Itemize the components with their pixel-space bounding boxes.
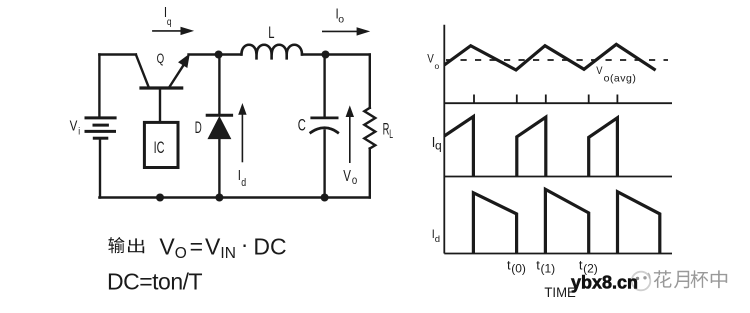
svg-text:D: D (195, 117, 202, 137)
svg-text:V: V (205, 234, 221, 260)
svg-text:·: · (241, 231, 249, 257)
svg-text:V: V (343, 166, 351, 184)
svg-text:L: L (389, 128, 393, 141)
svg-text:o: o (435, 61, 440, 71)
svg-text:V: V (70, 117, 78, 134)
svg-text:Q: Q (157, 51, 165, 66)
svg-text:V: V (596, 65, 602, 77)
svg-text:d: d (241, 177, 246, 189)
svg-text:IC: IC (154, 139, 165, 158)
svg-text:(1): (1) (541, 261, 556, 275)
svg-text:q: q (167, 16, 172, 28)
svg-text:DC: DC (253, 234, 286, 260)
svg-text:q: q (435, 139, 442, 153)
svg-text:(0): (0) (511, 261, 526, 275)
svg-text:R: R (383, 120, 390, 139)
svg-text:V: V (159, 234, 175, 260)
svg-text:o: o (338, 14, 344, 26)
svg-text:DC=ton/T: DC=ton/T (107, 268, 203, 294)
svg-text:=: = (190, 234, 203, 260)
svg-text:o(avg): o(avg) (604, 73, 637, 85)
svg-text:d: d (435, 234, 440, 245)
svg-text:V: V (427, 53, 434, 66)
svg-text:i: i (78, 126, 80, 138)
svg-text:O: O (175, 245, 187, 262)
svg-text:IN: IN (220, 245, 236, 262)
svg-text:o: o (352, 174, 357, 187)
svg-text:ybx8.cn: ybx8.cn (571, 272, 638, 292)
svg-text:C: C (298, 115, 306, 134)
svg-text:L: L (268, 24, 274, 43)
